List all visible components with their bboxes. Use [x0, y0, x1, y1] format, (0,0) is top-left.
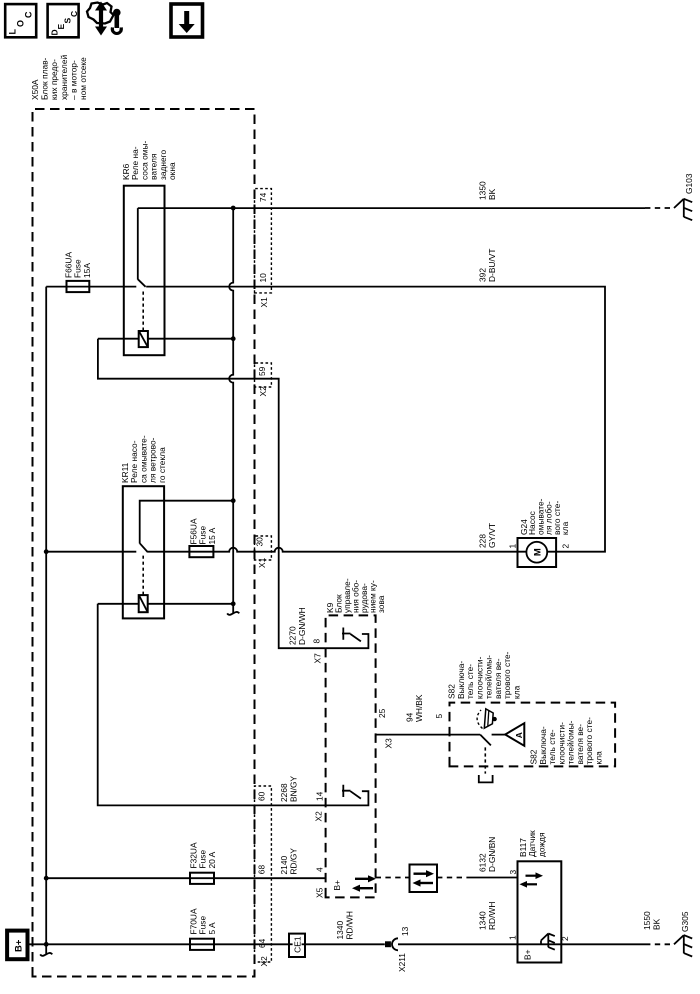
ground G103 — [645, 199, 692, 220]
wire 94 WH/BK K9 X3-25 to S82 — [376, 734, 481, 736]
svg-text:392D-BU/VT: 392D-BU/VT — [478, 249, 497, 283]
svg-text:G24Насосомывате-ля лобо-вого с: G24Насосомывате-ля лобо-вого сте-кла — [519, 498, 570, 535]
svg-text:C: C — [69, 11, 79, 17]
rain sensor B117 box — [518, 861, 562, 962]
switch S82 dashed box — [450, 703, 616, 767]
S82 reference triangle A — [505, 723, 524, 746]
wire fuse F56UA branch KR11 feed — [46, 551, 136, 553]
svg-text:X1: X1 — [257, 557, 267, 568]
svg-text:A: A — [514, 732, 524, 738]
S82 detent dashed link — [484, 747, 486, 773]
svg-text:14: 14 — [315, 791, 325, 801]
svg-text:2140RD/GY: 2140RD/GY — [279, 848, 298, 875]
svg-text:3: 3 — [508, 870, 518, 875]
ground G305 — [645, 935, 692, 956]
svg-text:F70UAFuse5 A: F70UAFuse5 A — [189, 908, 217, 934]
wire KR11 contact bar to ground — [140, 501, 234, 544]
wire fuse F32UA branch 2140 RD/GY to K9 X5-4 — [46, 877, 325, 879]
svg-text:KR6Реле на-соса омы-вателязадн: KR6Реле на-соса омы-вателязаднегоокна — [121, 140, 177, 180]
wire 392 D-BU/VT pin 10 to G24 pin 2 — [146, 287, 605, 552]
fuse F32UA box — [190, 873, 214, 884]
svg-text:74: 74 — [258, 192, 268, 202]
svg-text:F32UAFuse20 A: F32UAFuse20 A — [189, 842, 217, 868]
fuse F56UA box — [189, 546, 213, 557]
svg-text:B117Датчикдождя: B117Датчикдождя — [518, 830, 546, 857]
connector stub X2 pins 60 68 64 — [255, 786, 272, 962]
pump G24 motor circle — [518, 542, 557, 563]
svg-text:C: C — [24, 11, 34, 18]
svg-text:13: 13 — [400, 926, 410, 936]
wire B+ feed drop — [28, 943, 518, 945]
inline connector X211 — [385, 938, 398, 950]
wire 1350 BK pin 74 to G103 — [138, 207, 645, 209]
wire ground net with hops — [229, 208, 233, 613]
svg-text:59: 59 — [257, 366, 267, 376]
svg-text:L: L — [8, 29, 18, 35]
svg-text:X2: X2 — [314, 811, 324, 822]
svg-text:30: 30 — [255, 537, 265, 547]
wire B117 internal through — [518, 943, 562, 945]
fuse F70UA box — [190, 939, 214, 950]
icon arrow box — [171, 4, 203, 37]
svg-text:1350BK: 1350BK — [478, 181, 497, 200]
svg-text:O: O — [16, 20, 26, 27]
connector stub X2 pin 59 — [255, 363, 272, 387]
svg-text:X50AБлок плав-ких предо-хранит: X50AБлок плав-ких предо-хранителей– в мо… — [30, 55, 88, 100]
svg-text:B+: B+ — [523, 949, 533, 960]
wire serial data dashed LIN box to solid — [437, 877, 468, 879]
svg-text:D: D — [50, 29, 60, 35]
wire 2270 D-GN/WH KR6 coil to K9 X7-8 — [98, 339, 326, 649]
svg-text:G103: G103 — [684, 173, 694, 194]
svg-text:K9Блокуправле-ния обо-рудова-н: K9Блокуправле-ния обо-рудова-нием ку-зов… — [325, 578, 386, 613]
svg-text:1340RD/WH: 1340RD/WH — [478, 902, 497, 930]
svg-text:X3: X3 — [384, 738, 394, 749]
S82 detent bracket — [479, 775, 493, 782]
fuse block X50A dashed outline — [33, 109, 255, 977]
svg-text:X7: X7 — [313, 653, 323, 664]
wire fuse F66UA branch to KR6 contact — [46, 286, 136, 288]
wire B+ rail — [45, 287, 47, 954]
svg-text:228GY/VT: 228GY/VT — [478, 523, 497, 548]
relay KR6 coil — [139, 331, 148, 347]
svg-text:E: E — [56, 24, 66, 30]
svg-text:1: 1 — [508, 935, 518, 940]
B117 internal ground — [541, 934, 555, 950]
svg-text:10: 10 — [258, 273, 268, 283]
wire KR11 coil leg — [98, 603, 234, 605]
svg-text:S82Выключа-тель сте-клоочисти-: S82Выключа-тель сте-клоочисти-телей/омы-… — [447, 651, 522, 699]
K9 internal switch icon X7-8 — [326, 628, 369, 649]
K9 internal serial arrows — [352, 875, 376, 892]
wire S82 lever — [480, 735, 491, 746]
connector stub X1 pin 30 — [255, 536, 272, 560]
svg-text:1550BK: 1550BK — [642, 911, 661, 930]
wire KR6 lever — [138, 279, 146, 287]
wire serial data dashed K9 to LIN box — [376, 877, 410, 879]
svg-text:8: 8 — [312, 639, 322, 644]
svg-text:60: 60 — [257, 791, 267, 801]
svg-text:F56UAFuse15 A: F56UAFuse15 A — [189, 518, 217, 544]
svg-text:F66UAFuse15A: F66UAFuse15A — [64, 252, 92, 278]
wire S82 contact to triangle — [492, 734, 506, 736]
svg-text:X5: X5 — [315, 887, 325, 898]
svg-text:2: 2 — [561, 544, 571, 549]
svg-text:64: 64 — [257, 938, 267, 948]
svg-text:4: 4 — [315, 867, 325, 872]
svg-text:25: 25 — [377, 708, 387, 718]
icon LOC box — [5, 4, 36, 37]
serial data symbol box — [410, 865, 438, 893]
svg-text:94WH/BK: 94WH/BK — [405, 694, 424, 722]
relay KR11 box — [123, 486, 164, 618]
svg-text:B+: B+ — [332, 880, 342, 891]
wire KR11 lever — [140, 543, 148, 552]
K9 internal switch icon X2-14 — [326, 785, 369, 806]
B117 internal serial arrows — [520, 872, 544, 887]
wire 228 GY/VT KR11 to G24 pin 1 with hops — [148, 548, 518, 552]
module K9 dashed box — [326, 615, 376, 897]
svg-text:2270D-GN/WH: 2270D-GN/WH — [288, 607, 307, 645]
svg-text:X2: X2 — [258, 386, 268, 397]
svg-text:CE1: CE1 — [293, 936, 303, 953]
S82 wiper icon — [477, 709, 497, 729]
icon vehicle with arrow and wrench — [87, 2, 121, 36]
wire 2268 BN/GY KR11 coil to K9 X2-14 — [98, 604, 326, 806]
wire 6132 D-GN/BN solid to B117 pin 3 — [468, 877, 518, 879]
svg-text:G305: G305 — [680, 911, 690, 932]
junction dots — [44, 206, 236, 947]
battery terminal B+ box — [7, 931, 27, 960]
fuse F66UA box — [67, 281, 90, 292]
svg-text:1: 1 — [508, 544, 518, 549]
relay KR11 coil — [139, 595, 148, 612]
relay KR6 mechanical link — [142, 290, 144, 331]
svg-text:S: S — [63, 18, 73, 24]
svg-text:S82Выключа-тель сте-клоочисти-: S82Выключа-тель сте-клоочисти-телей/омы-… — [529, 717, 604, 765]
connector stub X1 pins 74 10 — [255, 189, 272, 293]
pump G24 box — [518, 538, 557, 567]
wire KR6 contact bar to pin 74 — [137, 208, 139, 280]
svg-text:X211: X211 — [397, 953, 407, 972]
svg-text:X2: X2 — [259, 956, 269, 967]
svg-text:68: 68 — [257, 865, 267, 875]
wire 1550 BK B117 pin 2 to G305 — [561, 943, 645, 945]
svg-text:2: 2 — [560, 936, 570, 941]
svg-text:6132D-GN/BN: 6132D-GN/BN — [478, 837, 497, 872]
relay KR6 box — [124, 186, 165, 356]
splice pack CE1 box — [289, 934, 305, 957]
svg-text:KR11Реле насо-са омывате-ля ве: KR11Реле насо-са омывате-ля ветрово-го с… — [120, 435, 167, 483]
svg-text:1340RD/WH: 1340RD/WH — [335, 911, 354, 939]
wire KR6 coil leg — [98, 338, 233, 340]
svg-text:X1: X1 — [259, 297, 269, 308]
relay KR11 mechanical link — [142, 555, 144, 594]
icon DESC box — [48, 4, 79, 37]
svg-text:2268BN/GY: 2268BN/GY — [279, 776, 298, 802]
torn end B+ rail — [40, 953, 52, 956]
svg-text:B+: B+ — [14, 939, 25, 952]
svg-text:M: M — [533, 548, 544, 556]
torn end ground net — [227, 612, 239, 615]
svg-text:5: 5 — [434, 714, 444, 719]
